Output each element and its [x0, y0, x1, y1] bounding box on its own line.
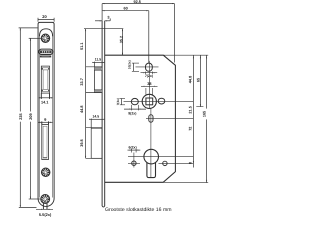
svg-text:3: 3: [107, 15, 109, 19]
deadbolt side view: [91, 128, 102, 158]
top slot hole: [136, 63, 159, 71]
svg-text:60: 60: [123, 6, 127, 10]
svg-text:92.5: 92.5: [134, 0, 141, 4]
svg-text:35.2: 35.2: [119, 36, 123, 43]
faceplate inner side lines: [39, 36, 41, 198]
below-follower oval: [146, 109, 193, 147]
deadbolt opening: [42, 124, 49, 159]
right chain dim line 44.8/21.5/72/8: [193, 55, 194, 167]
small circle left: [128, 153, 140, 168]
svg-text:44.8: 44.8: [80, 106, 84, 113]
svg-text:209: 209: [29, 113, 33, 119]
faceplate outline front view: [38, 22, 54, 206]
small circle right: [159, 161, 194, 165]
svg-text:44.8: 44.8: [189, 76, 193, 83]
svg-text:Grootste slotkastdikte 16 mm: Grootste slotkastdikte 16 mm: [105, 207, 172, 213]
dim 5.5(2x) bottom screw: [36, 203, 53, 210]
dim 65: [196, 55, 203, 106]
screw hole bottom: [41, 195, 50, 204]
dim 235 overall: [19, 28, 38, 208]
dim 3 faceplate thickness: [95, 18, 110, 21]
dim 20 faceplate width: [38, 18, 54, 22]
dim 60 backset: [102, 10, 149, 63]
follower: [124, 61, 194, 109]
slot height dim 10(2x): [132, 63, 139, 71]
svg-text:20: 20: [42, 14, 47, 19]
svg-text:14.1: 14.1: [41, 101, 48, 105]
svg-text:8: 8: [189, 162, 193, 164]
dim 14.5 deadbolt projection: [89, 119, 104, 128]
screw hole top: [41, 34, 49, 42]
svg-text:14.5: 14.5: [92, 115, 99, 119]
svg-text:235: 235: [19, 113, 23, 119]
svg-text:6(2x): 6(2x): [129, 146, 137, 150]
latch bolt side view: [94, 68, 102, 92]
NEMEF logo: [39, 49, 53, 57]
dim 92.5: [102, 3, 174, 62]
svg-text:39.8: 39.8: [80, 139, 84, 146]
latch opening: [41, 66, 49, 93]
ext lines top/bottom right: [163, 54, 208, 56]
svg-text:5.5(2x): 5.5(2x): [39, 212, 52, 217]
svg-text:165: 165: [203, 111, 207, 117]
left chain dim line 51.1/33.7/44.8/39.8: [85, 29, 102, 159]
lock case outline side view: [105, 55, 176, 182]
faceplate inner dome: [40, 29, 53, 36]
side view faceplate double line: [102, 21, 105, 207]
dim 165 case height: [206, 55, 207, 183]
svg-text:7(2x): 7(2x): [116, 98, 120, 105]
svg-text:11.5: 11.5: [95, 58, 102, 62]
svg-text:51.1: 51.1: [80, 43, 84, 50]
euro cylinder hole: [128, 147, 193, 178]
svg-text:21.5: 21.5: [189, 106, 193, 113]
svg-text:33.7: 33.7: [80, 78, 84, 85]
svg-text:65: 65: [197, 78, 201, 82]
ext line dome top: [84, 28, 123, 30]
dim 9(2x) oval width: [124, 105, 146, 111]
dim 14.1 latch width: [39, 93, 53, 99]
dim 11.5 latch projection: [92, 62, 104, 68]
svg-text:9(2x): 9(2x): [128, 112, 136, 116]
dim 35.2: [122, 29, 123, 56]
svg-text:10(2x): 10(2x): [128, 60, 132, 69]
svg-text:7(2x): 7(2x): [145, 74, 153, 78]
left oval: [131, 98, 138, 104]
dim 7(2x) slot width: [141, 72, 158, 75]
svg-text:72: 72: [189, 127, 193, 131]
dim 209 screw distance: [29, 38, 41, 199]
dim 7(2x) oval height rotated: [120, 99, 125, 105]
screw hole middle: [42, 168, 50, 176]
right oval: [158, 98, 165, 104]
